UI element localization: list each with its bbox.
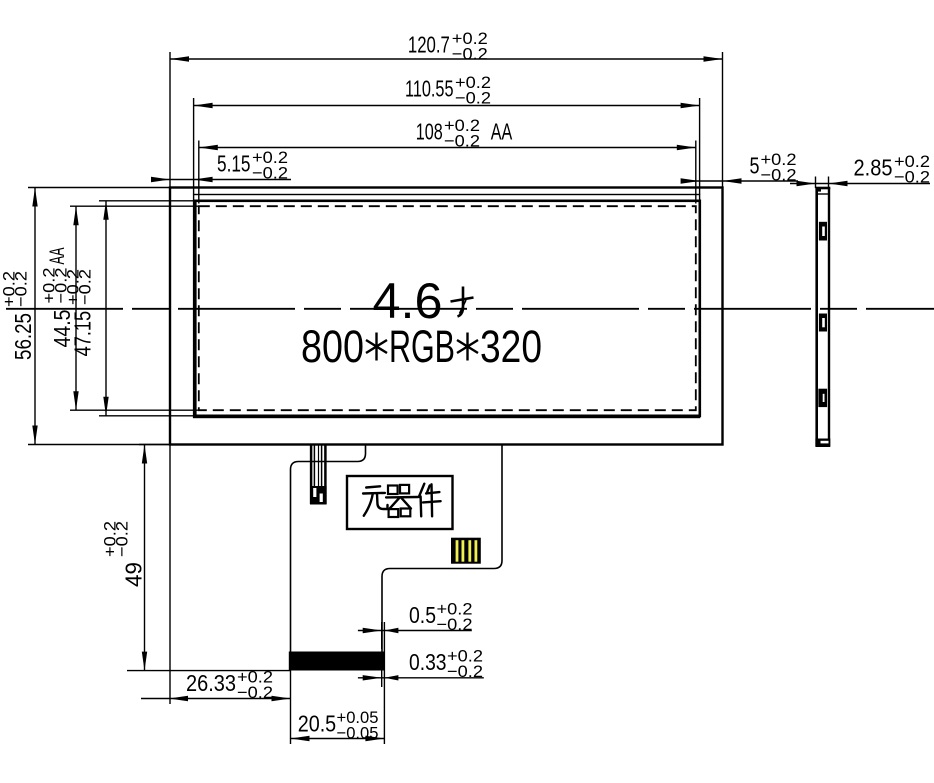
svg-text:−0.2: −0.2 [237, 683, 273, 702]
svg-text:47.15: 47.15 [70, 311, 96, 357]
svg-text:320: 320 [480, 321, 542, 372]
dimension 5.15 line [152, 179, 291, 181]
dimension 47.15 line [105, 201, 107, 416]
viewing area outline (110 x 47.15) [195, 201, 700, 416]
dimension 2.85 line [790, 183, 930, 185]
extension line VA bottom left [99, 415, 196, 417]
FPC stiffener bar [289, 652, 385, 671]
tick FPC edge upper [381, 622, 383, 649]
dimension 20.5 line [291, 738, 385, 740]
svg-text:49: 49 [121, 562, 147, 587]
extension line module bottom left [28, 444, 170, 446]
svg-text:0.33: 0.33 [409, 649, 447, 675]
extension line AA top [70, 205, 200, 207]
svg-text:−0.05: −0.05 [337, 724, 379, 743]
extension line VA top left [99, 200, 196, 202]
side view top edge [815, 187, 830, 190]
dimension 26.33 line [141, 698, 291, 700]
side view left wall [815, 188, 818, 446]
svg-text:−0.2: −0.2 [452, 44, 488, 63]
extension line stiffener right lower [383, 622, 385, 744]
dimension 49 line [144, 445, 146, 671]
extension line AA right [695, 141, 697, 204]
dimension 56.25 line [34, 188, 36, 445]
dimension 120.7 line [170, 58, 723, 60]
extension line module right [722, 52, 724, 188]
svg-text:5: 5 [750, 153, 760, 179]
FPC outline left [291, 445, 366, 652]
extension line FPC left lower [290, 671, 292, 745]
FPC outline right [382, 445, 502, 652]
dimension 110.55 line [194, 105, 700, 107]
extension line glass left [193, 98, 195, 195]
svg-text:26.33: 26.33 [186, 670, 236, 696]
asterisk 1 [375, 333, 377, 361]
svg-text:−0.2: −0.2 [12, 271, 31, 307]
svg-text:−0.2: −0.2 [894, 168, 930, 187]
svg-text:−0.2: −0.2 [113, 521, 132, 557]
svg-text:56.25: 56.25 [10, 313, 36, 360]
panel glass outline (110.55 wide) [194, 195, 700, 418]
extension line 49 top [139, 444, 170, 446]
svg-text:AA: AA [491, 119, 513, 145]
svg-text:2.85: 2.85 [854, 155, 893, 181]
side view tab 2 [819, 314, 827, 332]
dimension 44.5 AA line [75, 206, 77, 410]
extension line module left lower [169, 445, 171, 705]
extension line module top left [28, 187, 170, 189]
svg-text:800: 800 [301, 321, 364, 372]
extension line side right [828, 177, 830, 189]
dimension 108 AA line [199, 147, 696, 149]
svg-text:RGB: RGB [389, 321, 455, 372]
side view right wall [828, 188, 830, 446]
extension line AA left [198, 141, 200, 204]
svg-text:5.15: 5.15 [217, 151, 251, 177]
extension line glass right [699, 98, 701, 195]
svg-text:110.55: 110.55 [405, 75, 454, 101]
side view tab 1 [819, 222, 827, 241]
side view bottom cap [815, 439, 830, 448]
svg-text:120.7: 120.7 [408, 31, 450, 57]
svg-text:AA: AA [46, 248, 69, 265]
side view tab 3 [818, 389, 827, 407]
extension line AA bottom [70, 409, 200, 411]
asterisk 2 [466, 333, 468, 361]
svg-text:−0.2: −0.2 [455, 88, 491, 107]
active area dashed outline (108 x 44.5 AA) [199, 206, 696, 410]
dimension 5 line [682, 180, 798, 182]
LCD module outline (120.7 x 56.25) [170, 188, 723, 445]
tick FPC edge lower [381, 670, 383, 687]
svg-text:−0.2: −0.2 [252, 164, 288, 183]
extension line 49 bottom [127, 670, 291, 672]
extension line module left [169, 52, 171, 188]
dimension 0.33 line [358, 677, 484, 679]
component box [347, 476, 453, 529]
svg-text:−0.2: −0.2 [437, 615, 473, 634]
svg-text:−0.2: −0.2 [761, 166, 797, 185]
horizontal centerline [6, 308, 934, 310]
backlight connector [310, 446, 313, 505]
svg-text:20.5: 20.5 [298, 711, 337, 737]
dimension 0.5 line [358, 630, 472, 632]
svg-text:−0.2: −0.2 [76, 269, 95, 305]
svg-text:0.5: 0.5 [409, 602, 436, 628]
inch tick symbol [458, 287, 464, 317]
svg-text:108: 108 [416, 119, 443, 145]
side view top detail [818, 193, 828, 195]
label yuan-qi-jian [363, 484, 441, 517]
backlight contact pad [451, 538, 481, 564]
svg-text:−0.2: −0.2 [447, 662, 483, 681]
extension line side left [815, 177, 817, 189]
svg-text:−0.2: −0.2 [444, 132, 480, 151]
